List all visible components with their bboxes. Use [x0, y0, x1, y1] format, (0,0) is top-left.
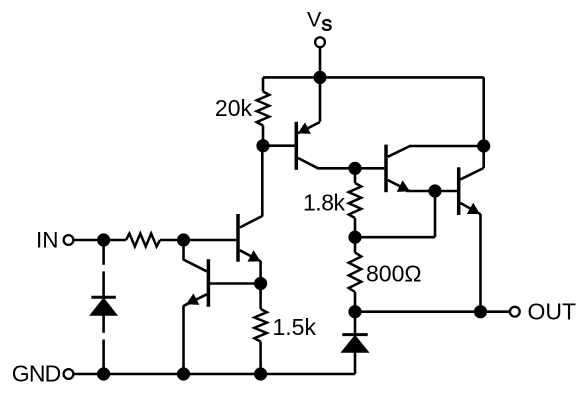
- svg-text:IN: IN: [36, 227, 59, 252]
- node OUT junction: [474, 306, 486, 318]
- transistor Q3 (NPN): [236, 214, 240, 262]
- terminal VS: [315, 37, 325, 47]
- node GND-D1: [98, 368, 110, 380]
- svg-text:20k: 20k: [215, 95, 253, 121]
- node Q5 base: [429, 185, 441, 197]
- wire: [160, 239, 236, 242]
- diode D2: [342, 333, 367, 336]
- transistor Q1 (PNP): [295, 122, 299, 170]
- wire: [259, 284, 262, 310]
- wire: [73, 373, 355, 376]
- wire (dashed): [102, 246, 105, 265]
- node 20k bottom: [257, 140, 269, 152]
- transistor Q2 (NPN): [384, 145, 388, 193]
- terminal GND: [64, 369, 74, 379]
- node IN branch: [98, 234, 110, 246]
- wire: [73, 239, 126, 242]
- node Q2 collector: [478, 140, 490, 152]
- svg-text:1.8k: 1.8k: [303, 190, 345, 216]
- resistor 1.8k: [349, 183, 362, 218]
- wire: [262, 126, 265, 146]
- node OUT left: [349, 306, 361, 318]
- wire (dashed): [102, 315, 105, 333]
- wire: [263, 76, 484, 79]
- svg-text:GND: GND: [12, 361, 61, 387]
- wire: [210, 282, 261, 285]
- wire: [479, 214, 482, 312]
- wire: [319, 77, 322, 121]
- node GND-1.5k: [255, 368, 267, 380]
- wire: [259, 342, 262, 375]
- wire: [409, 145, 484, 148]
- node GND-Q4: [177, 368, 189, 380]
- node Q3 emitter / Q4 base: [255, 277, 267, 289]
- wire: [354, 168, 357, 183]
- resistor R-in: [126, 234, 160, 247]
- wire: [482, 77, 485, 168]
- wire: [354, 292, 357, 312]
- wire: [355, 236, 435, 239]
- wire: [406, 190, 435, 193]
- wire: [182, 305, 185, 374]
- wire: [354, 218, 357, 237]
- transistor Q4 (NPN): [207, 259, 211, 307]
- svg-text:VS: VS: [307, 8, 332, 35]
- wire: [355, 310, 510, 313]
- svg-text:800Ω: 800Ω: [366, 260, 422, 286]
- svg-text:1.5k: 1.5k: [273, 314, 317, 340]
- wire: [263, 144, 295, 147]
- terminal IN: [64, 235, 74, 245]
- node 1.8k / 800 junction: [349, 231, 361, 243]
- wire: [354, 312, 357, 335]
- resistor 20k: [257, 92, 270, 126]
- wire: [319, 47, 322, 77]
- wire: [259, 261, 262, 284]
- wire: [261, 146, 264, 217]
- wire: [262, 77, 265, 91]
- resistor 1.5k: [254, 309, 267, 342]
- wire: [354, 237, 357, 252]
- wire: [317, 167, 384, 170]
- terminal OUT: [510, 307, 520, 317]
- wire: [434, 191, 437, 237]
- wire: [182, 240, 185, 260]
- diode D1: [91, 296, 115, 299]
- node VS rail junction: [314, 71, 326, 83]
- node Q1 collector / 1.8k top: [349, 162, 361, 174]
- node Q3 base / Q4 collector: [177, 234, 189, 246]
- transistor Q5 (NPN): [457, 167, 461, 215]
- resistor 800ohm: [349, 253, 362, 293]
- svg-text:OUT: OUT: [528, 299, 577, 325]
